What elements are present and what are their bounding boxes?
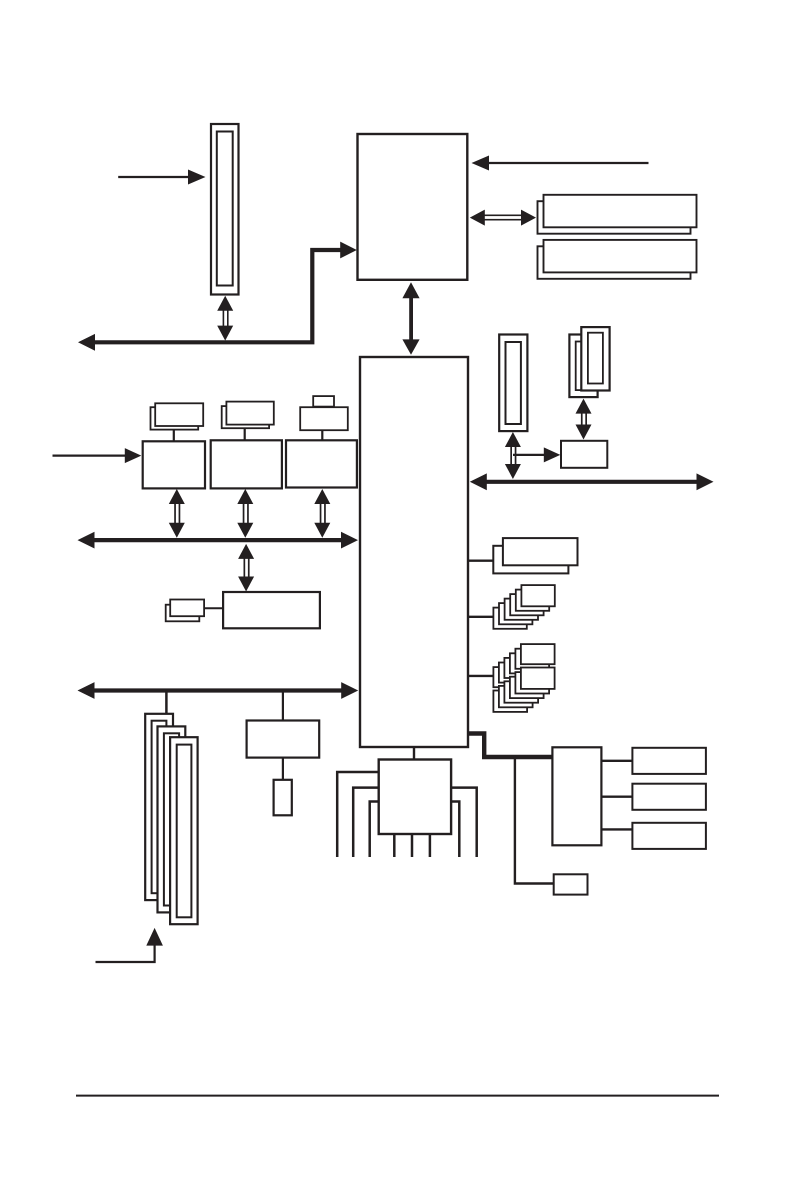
wire: mid bus to IDE box double arrow: [238, 544, 254, 592]
wire: codec to jack 1: [601, 760, 632, 762]
PCI slot 1: [145, 714, 173, 900]
block 3 with stacked small boxes on top: [286, 396, 357, 487]
LAN block 2 with phy boxes on top: [211, 402, 282, 489]
wire: chipset to super I/O: [413, 747, 415, 760]
CPU block: [358, 134, 468, 280]
wire: bus drop to PCI slots: [165, 693, 168, 715]
connector B back slot: [569, 335, 597, 398]
wire: BIOS box to small chip: [282, 758, 284, 780]
audio jack box 1: [632, 748, 706, 774]
connector A (vertical slot, right of chipset): [499, 335, 527, 432]
small controller box (right upper): [561, 441, 607, 468]
audio codec block: [552, 747, 601, 845]
wire: CPU to chipset double arrow: [402, 282, 419, 355]
wire: mid-left bus (thick, double arrow): [78, 532, 359, 549]
stacked connector group 2 (cascade of 6): [469, 585, 555, 629]
PCI slot 3: [170, 737, 198, 924]
memory slot 2: [538, 240, 697, 279]
wire: block2 to mid bus double arrow: [237, 489, 253, 538]
audio jack box 3: [632, 823, 706, 849]
super I/O block: [379, 760, 451, 835]
AGP slot connector (top-left): [211, 124, 239, 295]
footer separator rule: [76, 1095, 719, 1097]
audio jack box 2: [632, 784, 706, 810]
wire: bottom-left bus (thick, double arrow): [78, 682, 359, 699]
wire: connector B to small box double arrow: [576, 399, 592, 440]
wire: arrow from right into CPU: [472, 156, 649, 171]
stacked connector group 3 (two interleaved cascades): [469, 644, 555, 712]
PCI slot 2: [158, 726, 186, 912]
wire: block1 to mid bus double arrow: [169, 489, 185, 538]
stacked connector group 1 (right of chipset): [469, 538, 578, 573]
wire: connector A to right bus double arrow: [505, 432, 521, 479]
small box bottom right: [554, 874, 588, 894]
wire: up arrow into PCI slots from bottom-left: [96, 928, 163, 962]
wire: bus drop to BIOS box: [282, 693, 284, 721]
wire: CPU to memory double arrow: [470, 210, 536, 226]
wire: arrow from left into LAN box: [53, 448, 142, 463]
memory slot 1: [538, 195, 697, 234]
wire: top bus (thick) with left arrow and riser into CPU: [78, 242, 357, 351]
wire: block3 to mid bus double arrow: [314, 489, 330, 538]
connector B front slot: [581, 327, 609, 390]
wire: arrow to small box (right upper): [513, 447, 560, 462]
wire: super I/O pin fan: [337, 772, 477, 857]
small shadowed box left of IDE box: [166, 600, 223, 622]
chipset block: [360, 357, 468, 747]
IDE box: [223, 592, 320, 628]
wire: codec to jack 3: [601, 828, 632, 830]
wire: AGP slot to top bus double arrow: [217, 296, 233, 341]
LAN block 1 with phy boxes on top: [143, 403, 205, 488]
wire: thick path chipset to audio codec: [468, 734, 552, 758]
BIOS box: [247, 721, 320, 758]
wire: arrow into AGP slot: [118, 170, 205, 185]
wire: branch down to small box: [515, 757, 554, 884]
wire: right bus (thick, double arrow): [470, 473, 714, 490]
wire: codec to jack 2: [601, 796, 632, 798]
small chip below BIOS: [274, 780, 292, 816]
